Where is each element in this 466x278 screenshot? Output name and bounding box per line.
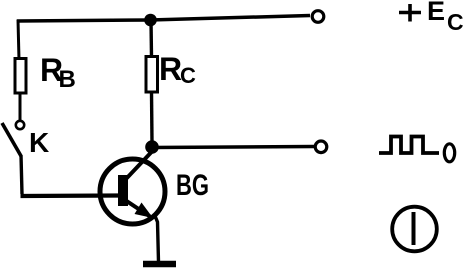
transistor BG base bar [118,175,128,206]
switch K terminal circle [16,121,24,129]
ground [143,261,176,268]
transistor BG body circle [100,159,165,224]
wire left drop from top bus to RB [18,20,19,61]
terminal output open circle [315,141,327,153]
svg-text:R: R [159,51,182,87]
svg-text:B: B [59,66,76,93]
wire emitter down to ground [155,216,159,262]
resistor RC [146,57,158,93]
transistor BG collector stroke [125,147,152,180]
resistor RB [15,59,26,94]
wire base run to transistor [21,193,121,198]
transistor BG emitter arrowhead [135,203,154,219]
svg-text:E: E [427,0,445,26]
wire top bus down to RC [149,20,153,57]
wire RC bottom to collector node [150,92,154,142]
node junction on top bus [144,14,157,27]
wire top bus from RB corner to +Ec terminal [17,16,310,22]
svg-text:C: C [447,9,464,35]
label output waveform pulses [379,137,439,154]
label +Ec plus sign [399,4,421,22]
switch K blade (open) [2,123,21,156]
svg-text:K: K [29,127,49,158]
annotation circled figure mark bar [412,212,416,245]
label output waveform subscript 0 [444,144,454,162]
wire RB bottom to switch terminal [19,93,22,121]
annotation circled figure mark circle [392,207,437,252]
node junction collector / output [145,140,159,154]
wire switch bottom down to corner [21,155,22,194]
svg-text:BG: BG [176,169,209,202]
terminal +Ec open circle [312,11,324,23]
transistor BG emitter stroke [125,200,150,217]
svg-text:C: C [180,63,196,88]
wire output run to terminal [152,147,314,148]
